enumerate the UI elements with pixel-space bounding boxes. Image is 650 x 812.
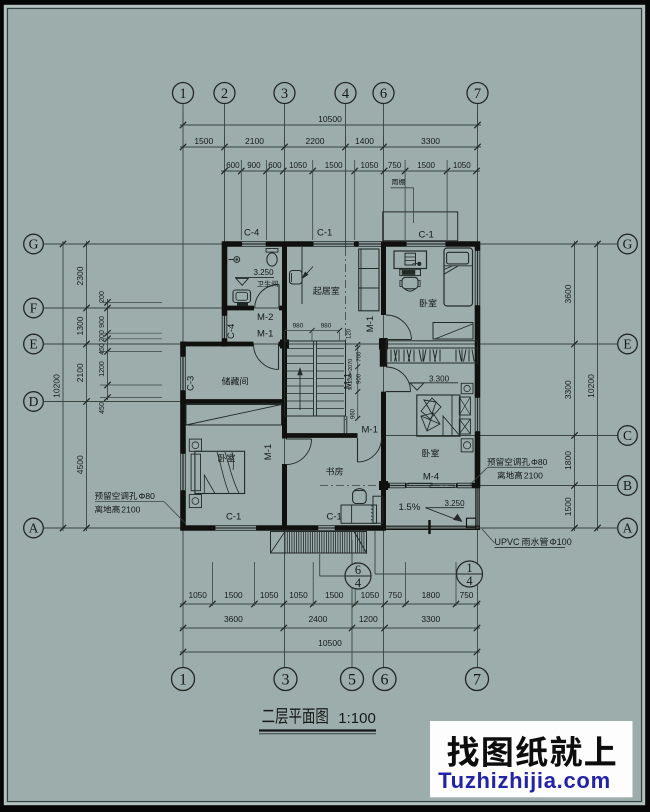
svg-text:Φ100: Φ100 [550, 537, 572, 547]
svg-text:900: 900 [247, 161, 261, 170]
svg-text:980: 980 [321, 323, 332, 330]
svg-text:6: 6 [380, 86, 387, 102]
svg-text:1050: 1050 [453, 161, 471, 170]
svg-text:900: 900 [357, 373, 363, 384]
svg-text:C: C [623, 428, 632, 443]
svg-text:1500: 1500 [224, 590, 243, 600]
svg-text:C-3: C-3 [186, 376, 197, 391]
svg-text:2300: 2300 [75, 266, 85, 285]
svg-text:10200: 10200 [586, 374, 596, 398]
svg-text:7: 7 [474, 86, 481, 102]
svg-text:2200: 2200 [306, 136, 325, 146]
svg-text:1400: 1400 [355, 136, 374, 146]
svg-text:1500: 1500 [417, 161, 435, 170]
svg-text:1050: 1050 [289, 590, 308, 600]
svg-text:2: 2 [221, 86, 228, 102]
svg-text:3600: 3600 [224, 614, 243, 624]
svg-text:C-4: C-4 [226, 324, 237, 339]
svg-text:C-1: C-1 [419, 230, 434, 241]
svg-text:1800: 1800 [422, 590, 441, 600]
svg-text:1050: 1050 [361, 161, 379, 170]
svg-text:1: 1 [466, 561, 472, 575]
svg-text:10500: 10500 [318, 114, 342, 124]
svg-text:E: E [29, 337, 37, 352]
svg-text:1: 1 [179, 86, 186, 102]
svg-text:750: 750 [460, 590, 474, 600]
svg-text:1300: 1300 [75, 316, 85, 335]
svg-text:C-1: C-1 [317, 228, 332, 239]
svg-text:4500: 4500 [75, 455, 85, 474]
svg-text:4: 4 [342, 86, 350, 102]
svg-text:1050: 1050 [289, 161, 307, 170]
svg-text:1:100: 1:100 [338, 710, 376, 727]
svg-text:C-1: C-1 [226, 512, 241, 523]
svg-text:980: 980 [293, 323, 304, 330]
svg-text:1200: 1200 [359, 614, 378, 624]
svg-text:3300: 3300 [421, 614, 440, 624]
svg-text:7: 7 [473, 672, 481, 689]
svg-text:1: 1 [179, 672, 187, 689]
svg-text:M-2: M-2 [257, 312, 273, 323]
svg-text:F: F [30, 301, 38, 316]
svg-text:E: E [623, 337, 631, 352]
svg-text:1200: 1200 [99, 361, 106, 377]
svg-text:600: 600 [226, 161, 240, 170]
svg-text:5: 5 [348, 672, 356, 689]
svg-text:Tuzhizhijia.com: Tuzhizhijia.com [438, 768, 611, 793]
svg-text:750: 750 [388, 161, 402, 170]
svg-text:960: 960 [351, 408, 357, 419]
svg-text:1050: 1050 [260, 590, 279, 600]
svg-text:4: 4 [355, 576, 362, 590]
svg-text:3600: 3600 [563, 284, 573, 303]
svg-text:3.250: 3.250 [445, 499, 466, 508]
svg-text:3300: 3300 [421, 136, 440, 146]
svg-text:10500: 10500 [318, 638, 342, 648]
svg-text:3.250: 3.250 [254, 268, 275, 277]
svg-text:700: 700 [357, 351, 363, 362]
svg-text:1050: 1050 [188, 590, 207, 600]
svg-text:3: 3 [281, 86, 288, 102]
svg-text:Φ80: Φ80 [139, 491, 156, 501]
svg-text:6: 6 [355, 563, 361, 577]
svg-text:D: D [29, 394, 39, 409]
svg-text:G: G [623, 237, 633, 252]
svg-text:750: 750 [388, 590, 402, 600]
svg-text:G: G [29, 237, 39, 252]
svg-text:2100: 2100 [524, 471, 543, 481]
svg-text:10200: 10200 [52, 374, 62, 398]
svg-text:3: 3 [282, 672, 290, 689]
svg-text:1500: 1500 [563, 497, 573, 516]
svg-text:C-1: C-1 [327, 512, 342, 523]
svg-text:120: 120 [347, 328, 353, 339]
svg-text:2400: 2400 [308, 614, 327, 624]
svg-text:3300: 3300 [563, 380, 573, 399]
svg-text:A: A [623, 521, 633, 536]
svg-text:2100: 2100 [245, 136, 264, 146]
svg-text:200: 200 [99, 291, 106, 303]
svg-text:1500: 1500 [194, 136, 213, 146]
svg-text:6: 6 [381, 672, 389, 689]
svg-text:450: 450 [99, 343, 106, 355]
svg-text:M-1: M-1 [362, 425, 378, 436]
svg-text:Φ80: Φ80 [531, 457, 548, 467]
svg-text:A: A [29, 521, 39, 536]
svg-text:450: 450 [99, 402, 106, 414]
svg-text:M-4: M-4 [423, 472, 439, 483]
svg-text:1050: 1050 [361, 590, 380, 600]
svg-text:M-1: M-1 [257, 329, 273, 340]
svg-text:M-1: M-1 [343, 373, 354, 389]
svg-text:1.5%: 1.5% [399, 502, 421, 513]
svg-text:1500: 1500 [325, 590, 344, 600]
svg-text:3.300: 3.300 [429, 375, 450, 384]
svg-text:M-1: M-1 [263, 444, 274, 460]
svg-text:200: 200 [99, 330, 106, 342]
svg-text:UPVC: UPVC [495, 537, 521, 547]
svg-text:M-1: M-1 [365, 316, 376, 332]
svg-text:900: 900 [99, 316, 106, 328]
svg-text:C-4: C-4 [244, 228, 259, 239]
svg-text:4: 4 [466, 574, 473, 588]
svg-text:B: B [623, 478, 632, 493]
svg-text:1500: 1500 [325, 161, 343, 170]
svg-text:1800: 1800 [563, 451, 573, 470]
svg-text:2100: 2100 [75, 363, 85, 382]
svg-text:600: 600 [268, 161, 282, 170]
svg-text:2100: 2100 [121, 505, 140, 515]
